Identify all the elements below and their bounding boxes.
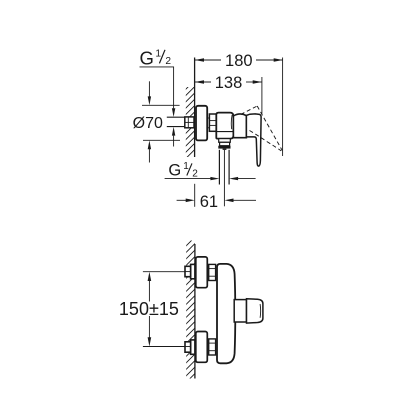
dimension 150±15 extension lines xyxy=(143,271,186,273)
union nut (top view) xyxy=(209,114,216,131)
hose axis / extension line xyxy=(223,150,225,207)
connector neck xyxy=(207,117,209,119)
dimension 180 xyxy=(195,59,283,61)
bottom union nut (bottom view) xyxy=(209,339,216,355)
svg-text:61: 61 xyxy=(200,193,218,211)
lever handle open position (dashed) xyxy=(241,106,282,151)
leader G 1/2 (bottom) with arrows at pipe xyxy=(165,178,211,180)
wall hatching (top view) xyxy=(180,75,200,164)
top union nut (bottom view) xyxy=(209,264,216,280)
bottom hex nut (bottom view) xyxy=(191,340,195,354)
extension line at 138 (right) xyxy=(261,77,263,114)
arrows Ø70 xyxy=(148,81,150,97)
body parting line xyxy=(216,131,233,133)
bottom escutcheon (bottom view) xyxy=(196,332,208,363)
svg-text:150±15: 150±15 xyxy=(119,299,179,319)
svg-text:2: 2 xyxy=(165,56,171,67)
bottom connector neck (bottom view) xyxy=(207,341,208,343)
shower outlet stack xyxy=(219,139,231,143)
wall surface line (bottom view) xyxy=(194,244,196,379)
leader for G 1/2 (top) xyxy=(140,67,174,109)
top hex nut (bottom view) xyxy=(191,264,195,278)
escutcheon (top view) xyxy=(196,106,207,141)
dimension 61 xyxy=(194,184,196,207)
extension line at 180 (right) xyxy=(282,58,284,157)
body contour arc xyxy=(230,115,233,129)
dimension 138 xyxy=(195,81,262,83)
mixer body (top view) xyxy=(216,113,233,139)
top connector neck (bottom view) xyxy=(207,266,208,268)
supply pipe (through wall) xyxy=(167,116,185,118)
wall surface line (top view) xyxy=(194,58,196,158)
svg-text:1: 1 xyxy=(155,48,161,59)
svg-text:Ø70: Ø70 xyxy=(133,115,163,132)
extension lines Ø70 xyxy=(142,104,180,106)
dimension 150±15 xyxy=(148,281,150,302)
svg-text:180: 180 xyxy=(225,52,253,70)
wall hatching (bottom view) xyxy=(181,231,201,394)
lever handle (closed position) xyxy=(246,114,261,166)
svg-text:G: G xyxy=(140,47,154,68)
svg-text:G: G xyxy=(168,161,181,179)
spout stub (bottom view) xyxy=(234,300,246,322)
hose pipe xyxy=(218,150,220,185)
svg-text:2: 2 xyxy=(192,169,198,180)
mixer body (bottom view) xyxy=(217,264,235,363)
top escutcheon (bottom view) xyxy=(196,257,208,288)
hex socket in wall xyxy=(185,117,194,128)
lever knob end (bottom view) xyxy=(247,299,263,323)
cartridge dome xyxy=(233,114,246,138)
svg-text:138: 138 xyxy=(215,74,243,92)
